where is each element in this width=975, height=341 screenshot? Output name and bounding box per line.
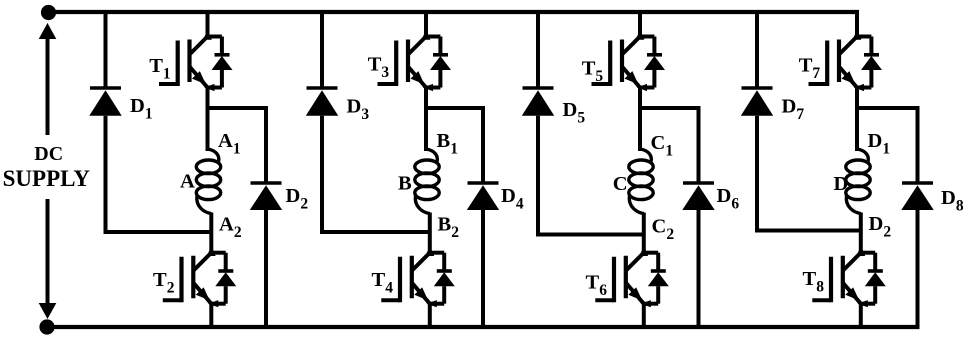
- wire: node A1 down to winding: [206, 108, 210, 151]
- inductor winding B: [415, 149, 439, 214]
- transistor T7 (upper IGBT): [809, 30, 883, 91]
- wire: node D1 branch to diode D8: [855, 106, 920, 110]
- wire: node D1 down to winding: [855, 108, 859, 151]
- svg-text:SUPPLY: SUPPLY: [3, 166, 91, 191]
- wire: T4 emitter to bottom rail: [428, 304, 432, 327]
- wire: diode D7 to node D2 wire: [755, 116, 759, 233]
- transistor T8 (lower IGBT): [812, 246, 886, 307]
- wire: top rail to T3 collector: [424, 12, 428, 39]
- wire: T7 emitter down to node D1: [855, 88, 859, 111]
- diode D3 (freewheel, left): [306, 88, 338, 116]
- wire: top rail to T5 collector: [638, 12, 642, 39]
- svg-text:D: D: [834, 173, 849, 195]
- wire: node B1 down to winding: [424, 108, 428, 151]
- wire: diode D8 to bottom rail: [916, 210, 920, 327]
- inductor winding C: [629, 149, 653, 214]
- transistor T4 (lower IGBT): [381, 246, 455, 307]
- wire: diode D1 to node A2 wire: [104, 116, 108, 234]
- svg-text:C: C: [613, 173, 628, 195]
- transistor T2 (lower IGBT): [163, 246, 237, 307]
- wire: node C1 down to winding: [638, 108, 642, 151]
- wire: diode D5 to node C2: [536, 233, 644, 237]
- wire: diode D2 to bottom rail: [264, 210, 268, 327]
- transistor T1 (upper IGBT): [159, 30, 233, 91]
- wire: T3 emitter down to node B1: [424, 88, 428, 111]
- diode D2 (freewheel, right): [250, 183, 282, 210]
- wire: diode D4 to bottom rail: [481, 210, 485, 327]
- transistor T6 (lower IGBT): [595, 246, 669, 307]
- wire: diode D3 to node B2 wire: [320, 116, 324, 234]
- wire: winding bottom to T4 collector: [428, 213, 432, 255]
- svg-text:A: A: [180, 171, 195, 193]
- DC supply double-headed arrow: [46, 27, 50, 135]
- wire: T6 emitter to bottom rail: [642, 304, 646, 327]
- svg-text:DC: DC: [34, 143, 63, 165]
- wire: top rail to diode D3: [320, 12, 324, 88]
- wire: diode D3 to node B2: [320, 230, 430, 234]
- svg-text:B: B: [398, 173, 412, 195]
- transistor T5 (upper IGBT): [592, 30, 666, 91]
- wire: T2 emitter to bottom rail: [209, 304, 213, 327]
- wire: node B1 branch down to diode D4: [481, 108, 485, 183]
- wire: winding bottom to T2 collector: [209, 213, 213, 255]
- wire: winding bottom to T6 collector: [642, 213, 646, 255]
- diode D8 (freewheel, right): [901, 183, 933, 210]
- wire: diode D5 to node C2 wire: [536, 116, 540, 237]
- wire: diode D7 to node D2: [755, 229, 861, 233]
- wire: bottom supply rail: [45, 325, 920, 329]
- wire: top rail to diode D1: [104, 12, 108, 88]
- wire: diode D6 to bottom rail: [697, 210, 701, 327]
- wire: top supply rail: [47, 10, 859, 14]
- wire: node D1 branch down to diode D8: [916, 108, 920, 183]
- diode D1 (freewheel, left): [89, 88, 121, 116]
- diode D6 (freewheel, right): [682, 183, 714, 210]
- wire: winding bottom to T8 collector: [859, 213, 863, 255]
- wire: T1 emitter down to node A1: [206, 88, 210, 111]
- inductor winding D: [846, 149, 870, 214]
- wire: node B1 branch to diode D4: [424, 106, 485, 110]
- node: negative supply terminal dot: [39, 319, 54, 334]
- diode D7 (freewheel, left): [741, 88, 773, 116]
- wire: T8 emitter to bottom rail: [859, 304, 863, 327]
- diode D4 (freewheel, right): [467, 183, 499, 210]
- wire: diode D1 to node A2: [104, 230, 212, 234]
- wire: T5 emitter down to node C1: [638, 88, 642, 111]
- diode D5 (freewheel, left): [522, 88, 554, 116]
- wire: node C1 branch down to diode D6: [697, 108, 701, 183]
- transistor T3 (upper IGBT): [378, 30, 452, 91]
- wire: top rail to diode D7: [755, 12, 759, 88]
- wire: node A1 branch down to diode D2: [264, 108, 268, 183]
- wire: node A1 branch to diode D2: [206, 106, 269, 110]
- wire: top rail to T7 collector: [855, 12, 859, 39]
- inductor winding A: [196, 149, 220, 214]
- node: positive supply terminal dot: [41, 5, 56, 20]
- wire: node C1 branch to diode D6: [638, 106, 701, 110]
- wire: top rail to T1 collector: [206, 12, 210, 39]
- wire: top rail to diode D5: [536, 12, 540, 88]
